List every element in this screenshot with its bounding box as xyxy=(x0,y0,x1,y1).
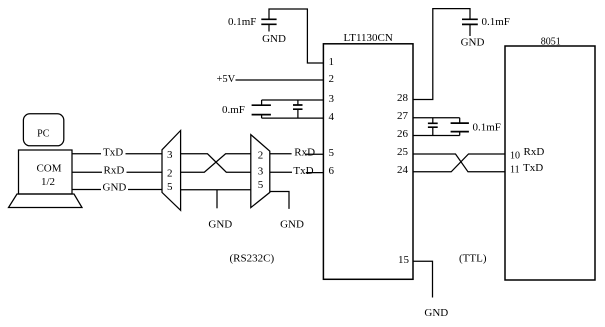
svg-text:2: 2 xyxy=(329,73,335,85)
svg-text:0.1mF: 0.1mF xyxy=(228,16,256,28)
svg-text:2: 2 xyxy=(258,150,264,162)
svg-text:5: 5 xyxy=(329,147,335,159)
svg-text:28: 28 xyxy=(397,92,409,104)
svg-text:26: 26 xyxy=(397,128,409,140)
svg-text:(TTL): (TTL) xyxy=(459,253,487,265)
svg-text:TxD: TxD xyxy=(293,165,313,177)
svg-text:2: 2 xyxy=(167,168,173,180)
svg-text:LT1130CN: LT1130CN xyxy=(344,32,393,44)
svg-text:RxD: RxD xyxy=(524,146,545,158)
svg-text:TxD: TxD xyxy=(103,147,123,159)
svg-text:4: 4 xyxy=(329,111,335,123)
svg-text:27: 27 xyxy=(397,110,409,122)
svg-text:GND: GND xyxy=(280,218,304,230)
svg-text:COM: COM xyxy=(36,163,61,175)
svg-text:GND: GND xyxy=(424,307,448,319)
svg-text:RxD: RxD xyxy=(104,164,125,176)
svg-text:0.1mF: 0.1mF xyxy=(473,122,501,134)
svg-text:11: 11 xyxy=(510,164,520,175)
svg-text:3: 3 xyxy=(258,166,264,178)
svg-text:3: 3 xyxy=(167,149,173,161)
svg-text:TxD: TxD xyxy=(523,162,543,174)
svg-text:8051: 8051 xyxy=(541,37,561,48)
svg-text:GND: GND xyxy=(262,33,286,45)
svg-text:1: 1 xyxy=(329,56,335,68)
svg-text:25: 25 xyxy=(397,146,409,158)
svg-text:1/2: 1/2 xyxy=(41,176,55,188)
svg-text:RxD: RxD xyxy=(294,147,315,159)
svg-text:5: 5 xyxy=(167,181,173,193)
svg-text:10: 10 xyxy=(510,151,520,162)
svg-text:GND: GND xyxy=(208,218,232,230)
svg-text:0.1mF: 0.1mF xyxy=(482,16,510,28)
svg-text:GND: GND xyxy=(461,37,485,49)
svg-text:0.mF: 0.mF xyxy=(222,104,245,116)
svg-text:GND: GND xyxy=(103,182,127,194)
svg-text:5: 5 xyxy=(258,179,264,191)
svg-text:3: 3 xyxy=(329,93,335,105)
svg-text:+5V: +5V xyxy=(217,74,236,85)
svg-text:24: 24 xyxy=(397,164,409,176)
svg-text:PC: PC xyxy=(37,128,50,139)
svg-text:(RS232C): (RS232C) xyxy=(230,253,275,265)
svg-text:15: 15 xyxy=(398,254,410,266)
svg-text:6: 6 xyxy=(329,165,335,177)
